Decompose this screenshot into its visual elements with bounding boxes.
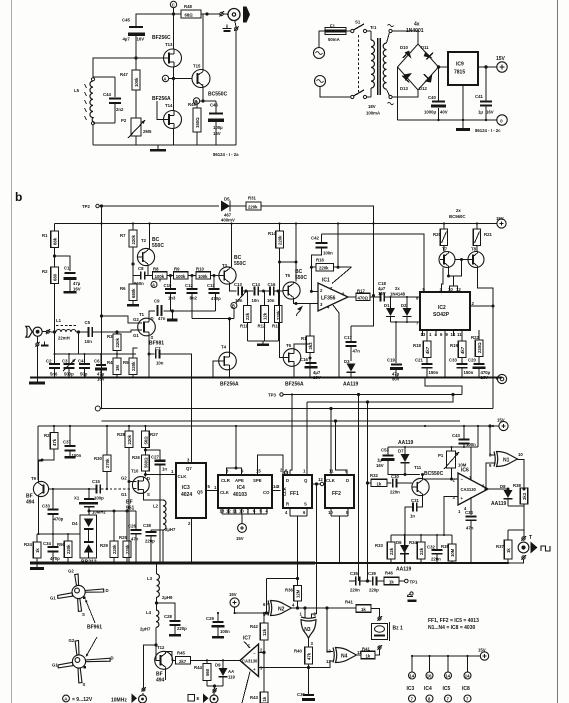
svg-text:220p: 220p: [145, 539, 155, 544]
IC4 power pins: [424, 656, 433, 702]
svg-text:2: 2: [453, 478, 456, 483]
svg-text:6: 6: [263, 602, 266, 607]
wire N4 out to R39: [357, 654, 362, 656]
svg-text:L5: L5: [74, 88, 80, 93]
svg-text:D: D: [346, 478, 349, 483]
capacitor C21: [415, 358, 439, 378]
svg-text:6: 6: [440, 332, 443, 337]
junction out/fb: [373, 295, 375, 297]
svg-text:50V: 50V: [392, 377, 400, 382]
svg-text:470Ω: 470Ω: [358, 296, 369, 301]
svg-text:D5: D5: [224, 197, 230, 202]
svg-text:R37: R37: [496, 544, 504, 549]
junctions y535: [404, 534, 446, 536]
wire T14 source to ground rail: [173, 128, 175, 145]
wire rail left end down: [37, 426, 39, 480]
wire C42 bottom to pin2 node: [311, 249, 321, 292]
node circle mixer bus: [95, 406, 100, 411]
svg-text:14: 14: [465, 674, 470, 679]
secondary bottom contact: [387, 90, 394, 105]
wire C12 bottom to B column: [192, 318, 234, 320]
svg-text:FF1, FF2 = IC5 = 4013: FF1, FF2 = IC5 = 4013: [428, 618, 479, 624]
capacitor C8: [134, 266, 145, 286]
wire T6 source down: [293, 366, 295, 377]
wire IC4 CO to FF1 clk: [272, 490, 281, 492]
svg-text:1: 1: [429, 332, 432, 337]
wire T8 emitter to pin2: [470, 268, 493, 307]
analog ground rail: [30, 377, 502, 379]
svg-text:2: 2: [260, 648, 263, 653]
svg-text:2µH7: 2µH7: [140, 627, 151, 632]
svg-text:220k: 220k: [131, 234, 136, 244]
wire secondary to bridge: [392, 31, 418, 97]
svg-text:R18: R18: [413, 343, 421, 348]
wire T1 G2: [102, 316, 139, 323]
wire T9 emitter down: [38, 496, 40, 534]
wire gnd rail to terminal: [479, 377, 496, 379]
svg-text:D13: D13: [400, 86, 408, 91]
svg-text:550C: 550C: [234, 261, 246, 267]
transistor T2 BC550C: [137, 237, 164, 266]
capacitor C27: [145, 450, 167, 563]
IC4 CLR/APE bracket: [227, 468, 242, 475]
svg-text:R34: R34: [409, 540, 417, 545]
svg-text:1k: 1k: [361, 607, 366, 612]
wire C40: [438, 67, 440, 120]
svg-text:G1: G1: [52, 663, 58, 668]
svg-text:N3: N3: [304, 627, 311, 633]
junction x367 top: [366, 401, 368, 403]
svg-text:R28: R28: [117, 432, 125, 437]
wire C9 right to bus: [164, 310, 216, 321]
capacitor C29: [206, 613, 230, 639]
svg-text:R41: R41: [345, 600, 353, 605]
wire T15 emitter down to node B: [202, 88, 204, 101]
wire opamp pin3: [295, 303, 297, 305]
svg-text:18V: 18V: [368, 104, 376, 109]
svg-text:100n: 100n: [323, 251, 333, 256]
transformer Tr1: [366, 25, 387, 116]
junction: [135, 57, 137, 59]
svg-text:16V: 16V: [213, 131, 221, 136]
resistor R44: [194, 664, 211, 681]
svg-text:220p: 220p: [177, 626, 187, 631]
svg-text:220k: 220k: [115, 337, 120, 347]
svg-text:100mA: 100mA: [366, 111, 380, 116]
svg-text:16V: 16V: [313, 375, 321, 380]
wire R41 to buzzer top: [371, 609, 380, 618]
svg-text:2: 2: [472, 301, 475, 306]
svg-text:S: S: [151, 335, 154, 340]
svg-text:C38: C38: [143, 523, 151, 528]
svg-text:C29: C29: [206, 616, 214, 621]
0V terminal: [497, 115, 507, 125]
resistor R40: [294, 647, 312, 664]
svg-text:R46: R46: [385, 571, 393, 576]
svg-text:FF1: FF1: [290, 491, 299, 497]
svg-text:BF961: BF961: [87, 625, 102, 631]
main ground bus: [30, 562, 315, 565]
IC2 pin labels: [416, 287, 475, 337]
svg-text:R19: R19: [450, 343, 458, 348]
resistor R49: [188, 102, 201, 132]
svg-text:D1: D1: [384, 303, 390, 308]
svg-text:C21: C21: [415, 358, 423, 363]
junction: [395, 321, 408, 323]
svg-text:C31: C31: [411, 498, 419, 503]
svg-text:2x: 2x: [395, 286, 400, 291]
svg-text:R49: R49: [188, 102, 196, 107]
svg-text:4: 4: [266, 509, 269, 514]
junction dots tank bus: [54, 353, 119, 355]
junction dots: [38, 533, 70, 535]
svg-text:68k: 68k: [53, 237, 58, 245]
capacitor C36: [297, 668, 315, 702]
svg-text:AA119: AA119: [343, 382, 359, 388]
svg-text:1: 1: [214, 485, 217, 490]
wire T1 G1: [117, 330, 139, 332]
svg-text:100p: 100p: [94, 496, 104, 501]
switch link dashed: [358, 35, 360, 92]
svg-text:86124 - I - 2a: 86124 - I - 2a: [213, 152, 239, 157]
resistor R33: [375, 542, 395, 559]
wire R44/D9 bottoms to connector: [207, 685, 223, 689]
bus line y421: [102, 420, 461, 422]
15V circle bottom: [229, 592, 239, 613]
wire N1 out down: [518, 460, 525, 489]
wire R26 bottom drain node: [144, 471, 146, 477]
svg-text:12: 12: [226, 509, 231, 514]
wire R49 bottom: [196, 132, 198, 145]
wire C30 to T11 base: [397, 482, 412, 484]
resistor R12: [258, 306, 269, 329]
test point TP3: [268, 393, 283, 398]
svg-text:D9: D9: [215, 663, 221, 668]
junction: [202, 100, 204, 102]
svg-text:BF256C: BF256C: [152, 35, 171, 41]
wire R14 bottom junction: [279, 261, 281, 263]
label 4x 1N4001: [406, 22, 424, 35]
svg-text:7: 7: [411, 697, 414, 702]
diode D7: [398, 447, 410, 471]
capacitor C16: [300, 357, 321, 380]
wire C5 to R3/T1: [93, 331, 117, 333]
wire FF1 bottom bracket: [290, 508, 307, 579]
svg-text:C8: C8: [138, 266, 144, 271]
svg-text:16V: 16V: [137, 37, 145, 42]
svg-text:IC7: IC7: [243, 636, 251, 642]
wire gnd stub: [36, 378, 38, 382]
wire T11 emitter down to C31: [418, 496, 423, 507]
svg-text:150n: 150n: [464, 370, 474, 375]
svg-text:220n: 220n: [350, 588, 360, 593]
resistor R24: [24, 542, 41, 558]
svg-text:C6: C6: [94, 359, 100, 364]
wire R6 + ground: [127, 272, 139, 306]
wire bridge left down: [397, 67, 399, 120]
svg-text:T1: T1: [139, 312, 145, 317]
svg-text:G2: G2: [121, 476, 127, 481]
wire IC3 bottom gnd: [191, 518, 193, 563]
svg-text:S: S: [82, 612, 85, 617]
wire T7/T8 bases joined: [455, 259, 469, 261]
svg-text:40103: 40103: [233, 492, 247, 498]
wire C45-R47: [135, 58, 137, 70]
wire x478 rail to y447: [477, 426, 479, 447]
svg-text:R29: R29: [100, 543, 108, 548]
svg-text:TP1: TP1: [410, 580, 418, 585]
svg-text:2M5: 2M5: [143, 129, 152, 134]
svg-text:CLK: CLK: [326, 478, 336, 483]
svg-text:R3: R3: [107, 334, 113, 339]
wire T3 collector: [231, 224, 233, 268]
svg-text:47n: 47n: [131, 537, 139, 542]
svg-text:N4: N4: [341, 654, 348, 660]
wire bracket to emitter node: [449, 276, 454, 286]
svg-text:1µ: 1µ: [478, 110, 483, 115]
svg-text:119: 119: [228, 675, 236, 680]
node A: [162, 75, 168, 81]
svg-text:150n: 150n: [429, 370, 439, 375]
resistor R48: [181, 4, 201, 18]
wire TP3 right end up: [425, 378, 462, 395]
fuse F1: [325, 24, 346, 43]
wire L3-L4 junction: [155, 597, 157, 610]
wire D5 to R31: [234, 205, 246, 207]
svg-text:D: D: [147, 476, 150, 481]
svg-text:680k: 680k: [131, 288, 136, 298]
svg-text:BF256A: BF256A: [152, 96, 171, 102]
diode D1: [384, 297, 395, 322]
wire IC6 pin3 down: [444, 497, 458, 536]
label 2x 1N4148: [390, 286, 406, 297]
wire junction to T15 base: [174, 78, 193, 80]
transistor T10 BF961: [121, 469, 150, 512]
svg-text:22k: 22k: [245, 312, 250, 320]
wire T13 source to T14 drain: [173, 67, 175, 111]
svg-text:10M: 10M: [450, 548, 455, 557]
svg-text:T14: T14: [165, 103, 173, 108]
input contact: [46, 329, 50, 334]
svg-text:50mA: 50mA: [328, 37, 340, 42]
svg-text:C44: C44: [103, 92, 111, 97]
svg-text:D: D: [111, 656, 114, 661]
svg-text:S1: S1: [355, 20, 361, 25]
wire D1-D2 bottom to pin7: [391, 321, 421, 323]
transistor T1 BF981: [133, 312, 164, 347]
svg-text:Q5: Q5: [197, 490, 203, 495]
wire C17 top: [351, 296, 374, 327]
svg-text:LF356: LF356: [321, 296, 336, 302]
svg-text:560: 560: [205, 668, 210, 676]
svg-text:12k: 12k: [262, 628, 267, 636]
svg-text:1k: 1k: [366, 654, 371, 659]
svg-text:T: T: [529, 535, 532, 541]
svg-text:BF256A: BF256A: [285, 382, 304, 388]
wire bracket to rail: [235, 426, 237, 469]
svg-text:S: S: [147, 492, 150, 497]
svg-text:12: 12: [456, 287, 461, 292]
svg-text:BC560C: BC560C: [449, 214, 465, 219]
wire C41: [485, 67, 487, 120]
svg-text:T15: T15: [193, 64, 201, 69]
label A supply: [63, 695, 93, 703]
svg-text:1n: 1n: [162, 467, 167, 472]
svg-text:R4: R4: [107, 360, 113, 365]
svg-text:D3: D3: [344, 359, 350, 364]
svg-text:7: 7: [247, 509, 250, 514]
svg-text:CLK: CLK: [178, 474, 188, 479]
svg-text:1: 1: [458, 509, 461, 514]
svg-text:220k: 220k: [319, 266, 329, 271]
wire P1: [452, 447, 459, 479]
wire T5 collector to opamp+: [295, 262, 297, 282]
diode D12: [419, 74, 433, 92]
svg-text:4024: 4024: [181, 492, 192, 498]
svg-text:G1: G1: [121, 492, 127, 497]
wire FF1 D up to TP3 bus: [290, 395, 292, 476]
TP1 line left: [349, 580, 355, 582]
wire drain to IC3 clk: [145, 474, 176, 476]
svg-text:L4: L4: [146, 610, 152, 615]
svg-text:C34: C34: [43, 541, 51, 546]
svg-text:R10: R10: [196, 267, 204, 272]
svg-text:C: C: [172, 3, 175, 8]
wire R45 to IC7: [191, 659, 241, 661]
AC source top: [314, 48, 325, 59]
ground symbol: [456, 120, 470, 131]
svg-text:R2: R2: [42, 269, 48, 274]
svg-text:16V: 16V: [486, 110, 494, 115]
svg-text:16V: 16V: [376, 463, 384, 468]
wire R40 bottom: [308, 664, 310, 668]
junction: [277, 290, 279, 292]
wire R24: [36, 534, 38, 563]
capacitor C43: [452, 426, 476, 447]
svg-text:R30: R30: [94, 456, 102, 461]
svg-text:R36: R36: [285, 588, 293, 593]
svg-text:C3: C3: [62, 359, 68, 364]
wire x327 down to N4 upper input: [327, 608, 333, 652]
wire R44: [206, 660, 208, 686]
wire R29/R25 tops: [114, 511, 127, 563]
svg-text:b: b: [15, 190, 22, 204]
label 10MHz bottom left: [111, 644, 157, 703]
svg-text:C15: C15: [92, 479, 100, 484]
svg-text:220k: 220k: [112, 544, 117, 554]
ground bar left: [29, 382, 45, 385]
svg-text:T9: T9: [31, 476, 37, 481]
switch S1 top: [351, 20, 367, 33]
IC4 40103: [214, 469, 278, 509]
svg-text:IC2: IC2: [438, 305, 446, 311]
svg-text:CLK: CLK: [220, 490, 230, 495]
svg-text:68Ω: 68Ω: [185, 13, 194, 18]
input connector: [26, 326, 42, 337]
resistor R23: [44, 433, 58, 450]
svg-text:APE: APE: [235, 478, 244, 483]
resistor R21: [473, 229, 492, 246]
svg-text:1: 1: [171, 469, 174, 474]
junction dots ground rail: [53, 376, 480, 378]
svg-text:1: 1: [303, 469, 306, 474]
gnd bus junction dots: [36, 562, 509, 564]
transistor T13 BF256C: [152, 35, 182, 67]
wire T7 emitter down to bracket: [448, 260, 462, 278]
inductor L5: [74, 78, 95, 125]
wire A to junction: [169, 78, 173, 80]
svg-text:7815: 7815: [454, 70, 465, 76]
svg-text:C28: C28: [164, 614, 172, 619]
svg-text:11: 11: [457, 332, 462, 337]
junction y421 left: [101, 420, 103, 422]
wire T13 drain up: [173, 14, 175, 50]
15V plus under IC4: [236, 514, 246, 541]
svg-text:BC550C: BC550C: [424, 471, 444, 477]
wire T4 gate: [213, 361, 219, 378]
capacitor C45: [122, 18, 145, 42]
wire R15 bottom: [309, 353, 311, 378]
svg-text:2µH7: 2µH7: [165, 527, 176, 532]
svg-text:D: D: [286, 478, 289, 483]
wire C13-C14: [243, 290, 253, 292]
resistor R13: [272, 306, 282, 329]
svg-text:47k: 47k: [307, 652, 312, 660]
svg-text:470p: 470p: [211, 296, 221, 301]
svg-text:R38: R38: [513, 483, 521, 488]
capacitor C28: [157, 603, 188, 637]
junction: [53, 255, 55, 257]
svg-text:R25: R25: [119, 535, 127, 540]
svg-text:D8: D8: [500, 484, 506, 489]
svg-text:S: S: [304, 502, 307, 507]
junction node A: [172, 77, 174, 79]
0V rail: [398, 119, 497, 121]
XOR gate N2: [263, 601, 295, 618]
wire R50: [67, 534, 69, 563]
svg-text:4: 4: [292, 603, 295, 608]
wire IC2 bottom pins to resistors: [423, 330, 480, 378]
resistor R7: [120, 230, 137, 247]
svg-text:R43: R43: [250, 695, 258, 700]
svg-text:T2: T2: [141, 238, 147, 243]
svg-text:2µH9: 2µH9: [162, 595, 173, 600]
resistor R38: [513, 483, 528, 504]
switch S1 bottom: [351, 90, 367, 99]
svg-text:CO: CO: [263, 490, 270, 495]
wire AC2 to switch bottom: [320, 87, 351, 98]
svg-text:R26: R26: [132, 455, 140, 460]
crystal X1: [74, 489, 106, 515]
capacitor C7: [155, 346, 164, 366]
svg-text:C2: C2: [46, 359, 52, 364]
wire T5 collector: [295, 224, 297, 263]
svg-text:470p: 470p: [54, 517, 64, 522]
capacitor C14: [252, 282, 261, 303]
capacitor C35: [350, 571, 360, 593]
capacitor C26: [128, 511, 142, 563]
wire B node: [200, 100, 216, 102]
svg-text:3: 3: [277, 484, 280, 489]
legend FF/N: [428, 618, 479, 631]
svg-text:40V: 40V: [440, 110, 448, 115]
svg-text:470p: 470p: [50, 556, 60, 561]
svg-text:220k: 220k: [248, 205, 258, 210]
wire C14-C15: [259, 290, 269, 292]
resistor R27: [142, 431, 159, 448]
svg-text:100k: 100k: [134, 77, 139, 87]
junction: [295, 261, 297, 263]
